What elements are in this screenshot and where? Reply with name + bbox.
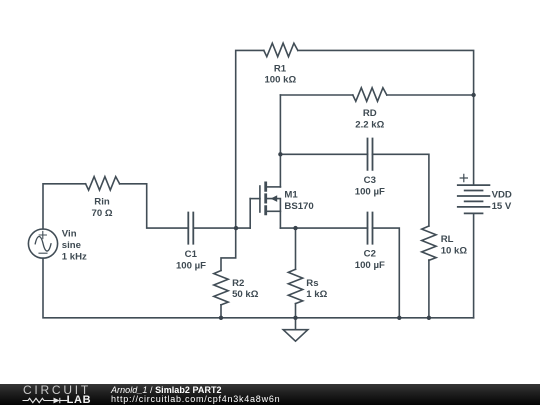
svg-text:BS170: BS170 xyxy=(284,201,313,212)
svg-text:70 Ω: 70 Ω xyxy=(91,208,112,219)
svg-text:C1: C1 xyxy=(185,249,198,260)
svg-text:C2: C2 xyxy=(364,249,376,260)
svg-text:Rin: Rin xyxy=(94,197,110,208)
svg-text:RL: RL xyxy=(441,234,454,245)
svg-text:10 kΩ: 10 kΩ xyxy=(441,245,468,256)
svg-text:15 V: 15 V xyxy=(492,201,512,212)
svg-text:M1: M1 xyxy=(284,190,298,201)
svg-text:100 kΩ: 100 kΩ xyxy=(264,75,296,86)
svg-text:1 kHz: 1 kHz xyxy=(62,252,87,263)
svg-text:C3: C3 xyxy=(364,175,376,186)
svg-text:R2: R2 xyxy=(232,278,244,289)
svg-text:50 kΩ: 50 kΩ xyxy=(232,289,259,300)
svg-text:2.2 kΩ: 2.2 kΩ xyxy=(355,120,384,131)
svg-text:RD: RD xyxy=(363,108,377,119)
svg-text:100 µF: 100 µF xyxy=(355,260,385,271)
svg-text:1 kΩ: 1 kΩ xyxy=(306,289,327,300)
svg-text:sine: sine xyxy=(62,240,81,251)
svg-text:Rs: Rs xyxy=(306,278,318,289)
svg-text:Vin: Vin xyxy=(62,229,77,240)
svg-text:100 µF: 100 µF xyxy=(176,260,206,271)
svg-text:VDD: VDD xyxy=(492,189,512,200)
svg-text:100 µF: 100 µF xyxy=(355,187,385,198)
svg-text:R1: R1 xyxy=(274,63,287,74)
